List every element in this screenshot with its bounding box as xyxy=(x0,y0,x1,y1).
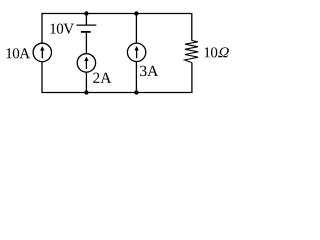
junction node top I3 xyxy=(134,11,138,15)
label 3A xyxy=(140,66,158,76)
current source I2 circle xyxy=(77,54,95,72)
junction node bottom I3 xyxy=(134,90,138,94)
current source I1 circle xyxy=(33,43,51,61)
wire branch V1 top xyxy=(85,14,87,26)
label 2A xyxy=(93,73,111,83)
current source I2 arrow xyxy=(84,57,88,69)
wire branch V1-I2 middle xyxy=(85,32,87,93)
junction node top V1 xyxy=(84,11,88,15)
wire outer loop: right-top, top, left, bottom, right-bottom xyxy=(42,14,192,93)
wire branch I3 xyxy=(135,14,137,93)
label 10ohm xyxy=(205,47,230,57)
battery V1 long plate xyxy=(77,24,97,26)
resistor R1 zigzag xyxy=(185,41,199,63)
current source I3 circle xyxy=(127,43,145,61)
battery V1 short plate xyxy=(81,31,91,33)
junction node bottom V1 xyxy=(84,90,88,94)
current source I1 arrow xyxy=(40,46,44,58)
label 10V xyxy=(51,24,74,34)
label 10A xyxy=(7,48,31,58)
current source I3 arrow xyxy=(134,46,138,58)
